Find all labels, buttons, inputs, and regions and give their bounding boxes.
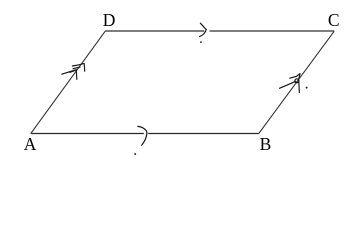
- side BC (right): [259, 31, 334, 133]
- side AB (bottom, left segment up to tick gap): [31, 133, 144, 135]
- vertex label D: [103, 12, 116, 30]
- side AD (left): [31, 31, 105, 133]
- side AB (bottom, right segment after tick gap): [148, 133, 259, 135]
- double tick mark on AD (two hand-drawn chevrons): [62, 64, 85, 80]
- stray dot below DC tick: [200, 41, 202, 43]
- vertex label A: [24, 136, 37, 154]
- double tick mark on BC (two hand-drawn chevrons with loop): [280, 74, 301, 93]
- side DC (top, gray, left segment of gap at tick): [105, 30, 204, 32]
- stray dot below AB tick: [134, 153, 136, 155]
- stray dot right of BC tick: [306, 87, 308, 89]
- vertex label C: [328, 12, 340, 30]
- side DC (top, gray, right segment after tick gap): [210, 30, 335, 32]
- tick mark on DC (single chevron): [200, 23, 207, 36]
- tick mark on AB (single curved chevron): [138, 126, 147, 145]
- vertex label B: [260, 136, 272, 154]
